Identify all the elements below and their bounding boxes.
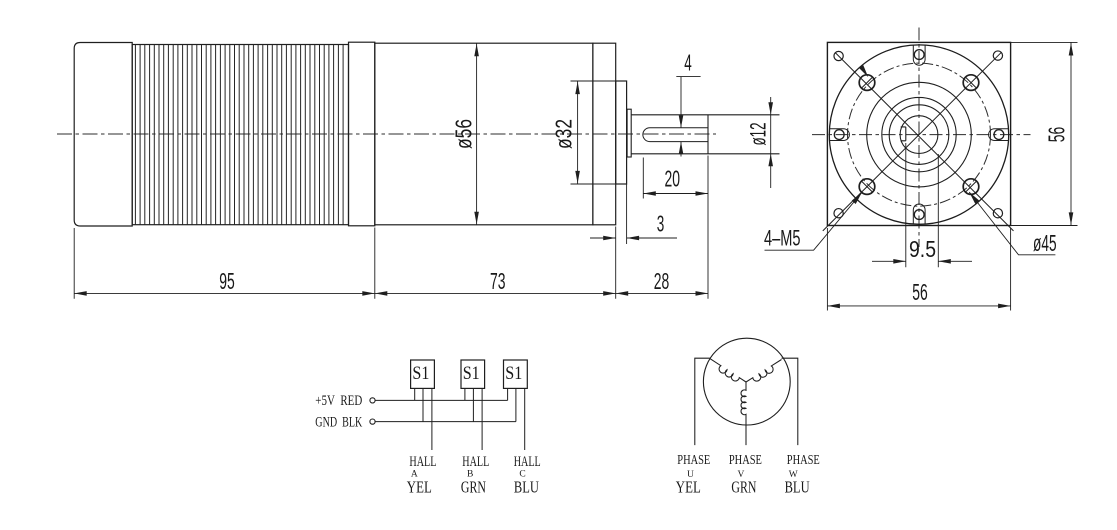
svg-text:BLU: BLU xyxy=(785,477,810,496)
gearbox body ø56 xyxy=(375,43,593,225)
west screw hole xyxy=(834,130,844,140)
circle ø32 boss (front view) xyxy=(867,82,972,187)
bolt circle ø45 (dash-dot) xyxy=(848,63,991,206)
phase W winding coil (upper-right) xyxy=(746,360,782,383)
dimension line ø56 xyxy=(476,43,478,225)
dimension line ø32 with extension lines xyxy=(571,81,616,184)
north screw hole xyxy=(914,50,924,60)
M5 hole top-left xyxy=(859,75,875,91)
svg-text:4: 4 xyxy=(684,50,692,76)
hall sensor 2 +5V leg xyxy=(464,388,466,400)
svg-text:56: 56 xyxy=(1044,127,1070,143)
south screw slot xyxy=(913,204,925,224)
dimension 3 (boss thickness) xyxy=(590,184,677,244)
dimension 20 (keyway length) xyxy=(643,158,708,199)
GND wire xyxy=(375,421,516,423)
front ring band of motor housing xyxy=(349,42,375,226)
svg-text:95: 95 xyxy=(219,268,235,294)
hall sensor 3 GND leg xyxy=(515,388,517,421)
svg-text:S1: S1 xyxy=(463,363,480,384)
dimension 56 (right side) xyxy=(1011,42,1078,225)
svg-text:GND BLK: GND BLK xyxy=(315,415,362,431)
+5V supply wire xyxy=(375,399,508,401)
svg-text:PHASE: PHASE xyxy=(677,453,710,468)
diagonal construction line TR-BL xyxy=(823,53,1001,231)
top-left corner hole xyxy=(834,51,843,60)
M5 hole top-right xyxy=(963,75,979,91)
dimension 56 (bottom) xyxy=(827,228,1010,311)
output shaft ø12 with extension lines xyxy=(631,115,779,154)
svg-text:ø12: ø12 xyxy=(746,123,771,146)
phase U lead wire xyxy=(695,358,710,445)
front view vertical centerline xyxy=(918,28,920,248)
south screw hole xyxy=(914,210,924,220)
svg-text:+5V RED: +5V RED xyxy=(315,393,362,409)
extension lines for bottom chained dimensions xyxy=(74,156,708,299)
hall sensor S1 box 1 xyxy=(411,360,435,388)
leader arrow at top-left M5 hole xyxy=(859,65,868,77)
shaft circle ø12 (front view) xyxy=(900,116,938,154)
hall sensor 1 +5V leg xyxy=(414,388,416,400)
hall sensor 3 output wire xyxy=(524,388,526,450)
collar circle xyxy=(889,105,949,165)
north screw slot xyxy=(913,45,925,65)
svg-text:20: 20 xyxy=(664,166,680,192)
svg-text:BLU: BLU xyxy=(514,478,539,497)
svg-text:28: 28 xyxy=(654,268,670,294)
GND terminal xyxy=(370,419,375,424)
dimension 9.5 xyxy=(872,143,972,267)
stator winding circle xyxy=(703,338,790,425)
bottom-left corner hole xyxy=(834,209,843,218)
intermediate circle xyxy=(882,97,956,171)
gearbox front plate xyxy=(593,43,616,225)
hall sensor S1 box 3 xyxy=(504,360,528,388)
svg-text:S1: S1 xyxy=(505,363,522,384)
svg-text:YEL: YEL xyxy=(676,477,701,496)
svg-text:73: 73 xyxy=(490,268,506,294)
diagonal construction line TL-BR xyxy=(836,53,1014,231)
phase U winding coil (upper-left) xyxy=(710,359,746,382)
svg-text:GRN: GRN xyxy=(731,477,756,496)
phase V winding coil (down) xyxy=(741,382,746,445)
east screw slot xyxy=(989,129,1009,141)
dimension line ø12 xyxy=(770,97,772,188)
west screw slot xyxy=(829,129,849,141)
shaft keyway (front view) xyxy=(901,127,906,141)
M5 hole bottom-right xyxy=(963,179,979,195)
shaft keyway flat (side view) xyxy=(643,128,708,142)
+5V supply terminal xyxy=(370,398,375,403)
phase W lead wire xyxy=(782,358,798,445)
svg-text:YEL: YEL xyxy=(407,478,432,497)
svg-text:PHASE: PHASE xyxy=(729,453,762,468)
centerline of motor side view xyxy=(57,133,716,135)
svg-text:ø45: ø45 xyxy=(1033,230,1057,256)
svg-text:4–M5: 4–M5 xyxy=(764,226,801,251)
svg-text:HALL: HALL xyxy=(462,454,489,470)
svg-text:HALL: HALL xyxy=(514,454,541,470)
east screw hole xyxy=(994,130,1004,140)
center tick top-right M5 xyxy=(966,77,977,88)
hall sensor 3 +5V leg xyxy=(507,388,509,400)
svg-text:HALL: HALL xyxy=(409,454,436,470)
center tick top-left M5 xyxy=(862,77,873,88)
M5 hole bottom-left xyxy=(859,179,875,195)
hall sensor S1 box 2 xyxy=(461,360,485,388)
front view horizontal centerline xyxy=(812,134,1031,136)
ribbed motor housing outline xyxy=(132,45,348,225)
chained dimension line 95 / 73 / 28 xyxy=(74,292,708,294)
svg-text:GRN: GRN xyxy=(461,478,486,497)
center tick bottom-right M5 xyxy=(966,181,977,192)
center tick bottom-left M5 xyxy=(862,181,873,192)
svg-text:ø32: ø32 xyxy=(551,119,577,149)
mounting flange square 56x56 xyxy=(827,42,1010,225)
ø45 label and leader xyxy=(969,192,1055,255)
hall sensor 2 GND leg xyxy=(472,388,474,421)
housing cooling ribs xyxy=(135,45,343,225)
svg-text:56: 56 xyxy=(912,279,928,305)
hall sensor 2 output wire xyxy=(481,388,483,450)
front pilot boss ø32 xyxy=(616,81,627,184)
svg-text:PHASE: PHASE xyxy=(787,453,820,468)
4-M5 label and leader xyxy=(765,192,863,250)
svg-text:S1: S1 xyxy=(412,363,429,384)
top-right corner hole xyxy=(993,51,1002,60)
shaft collar ring xyxy=(627,109,631,157)
svg-text:3: 3 xyxy=(657,211,665,237)
hall sensor 1 output wire xyxy=(431,388,433,450)
flange outer circle xyxy=(829,45,1008,224)
svg-text:ø56: ø56 xyxy=(451,119,477,149)
motor rear end cap xyxy=(74,43,132,227)
hall sensor 1 GND leg xyxy=(422,388,424,421)
dimension 4 (keyway width) xyxy=(676,77,700,157)
bottom-right corner hole xyxy=(993,209,1002,218)
svg-text:9.5: 9.5 xyxy=(909,236,936,262)
